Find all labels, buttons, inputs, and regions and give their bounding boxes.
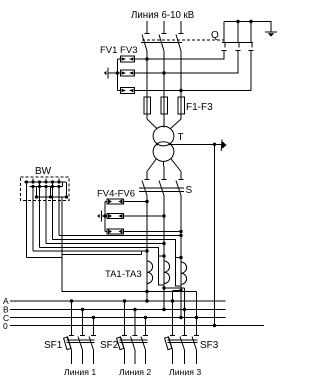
svg-text:SF1: SF1 bbox=[44, 340, 63, 351]
svg-text:Линия 3: Линия 3 bbox=[169, 367, 201, 377]
svg-text:Линия 1: Линия 1 bbox=[64, 367, 96, 377]
svg-text:S: S bbox=[186, 185, 193, 196]
svg-text:TA1-TA3: TA1-TA3 bbox=[105, 269, 142, 280]
svg-text:SF2: SF2 bbox=[100, 340, 119, 351]
svg-text:T: T bbox=[178, 132, 184, 143]
svg-text:SF3: SF3 bbox=[200, 340, 219, 351]
svg-text:BW: BW bbox=[35, 166, 52, 177]
svg-text:F1-F3: F1-F3 bbox=[186, 102, 213, 113]
svg-text:FV1 FV3: FV1 FV3 bbox=[100, 45, 138, 56]
svg-text:Q: Q bbox=[211, 30, 219, 41]
svg-text:Линия 2: Линия 2 bbox=[119, 367, 151, 377]
svg-text:Линия 6-10 кВ: Линия 6-10 кВ bbox=[131, 10, 194, 21]
svg-text:FV4-FV6: FV4-FV6 bbox=[97, 189, 135, 200]
svg-text:0: 0 bbox=[3, 321, 8, 331]
